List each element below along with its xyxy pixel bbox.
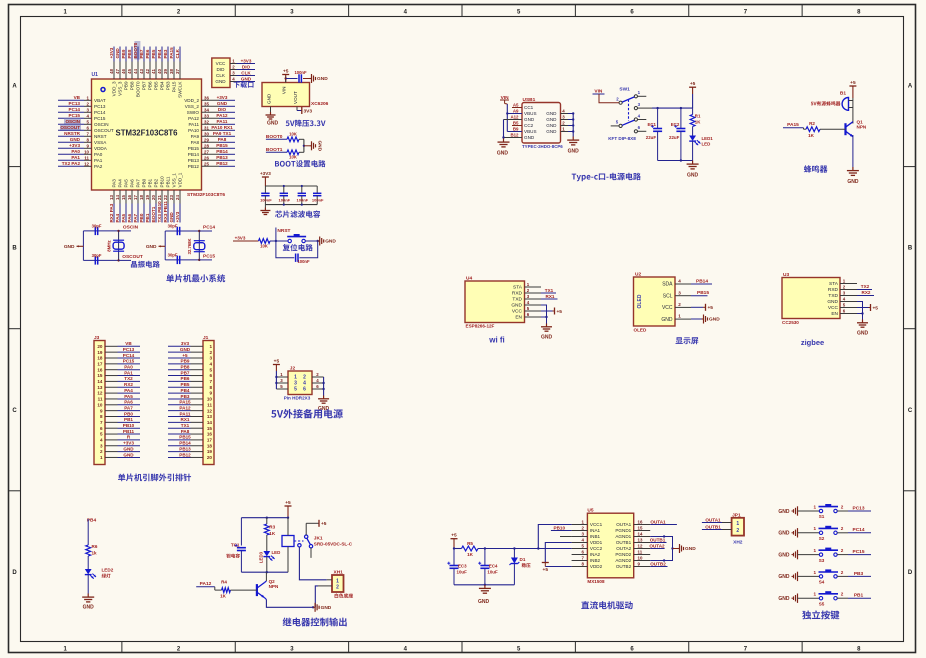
power rail with resistor R5: [451, 533, 572, 557]
svg-text:PA11: PA11: [217, 119, 228, 124]
svg-text:GND: GND: [511, 303, 522, 309]
svg-text:+5: +5: [690, 81, 696, 87]
svg-text:PB15: PB15: [216, 143, 228, 148]
svg-text:2: 2: [841, 592, 844, 597]
svg-text:VB: VB: [125, 341, 132, 346]
svg-text:14: 14: [97, 379, 103, 384]
pin 3 PC14 with net label PC14: [58, 107, 106, 115]
svg-text:12: 12: [97, 391, 103, 396]
wifi ground wiring: [541, 305, 553, 341]
svg-text:1: 1: [814, 548, 817, 553]
svg-text:10: 10: [207, 397, 213, 402]
svg-text:18: 18: [139, 195, 144, 200]
svg-text:+5: +5: [285, 500, 291, 506]
connector XH1 socket: [318, 569, 353, 598]
svg-text:J3: J3: [94, 335, 100, 341]
svg-text:+3V3: +3V3: [123, 441, 134, 446]
power port 3V3 at regulator output: [297, 107, 312, 115]
svg-text:STM32F103C8T6: STM32F103C8T6: [116, 129, 179, 138]
svg-text:GND: GND: [778, 596, 790, 602]
svg-text:S2: S2: [819, 536, 825, 541]
svg-text:13: 13: [97, 385, 103, 390]
svg-text:16: 16: [127, 195, 132, 200]
svg-text:GND: GND: [546, 123, 557, 128]
push button reset switch: [287, 234, 319, 243]
svg-text:D: D: [12, 570, 17, 576]
ground symbol at regulator GND pin: [266, 107, 279, 127]
svg-text:23: 23: [169, 195, 174, 200]
svg-text:JP1: JP1: [732, 512, 741, 518]
svg-text:CLK: CLK: [216, 73, 226, 78]
svg-text:SRD-05VDC-SL-C: SRD-05VDC-SL-C: [314, 541, 353, 546]
svg-text:OUTB1: OUTB1: [616, 540, 632, 545]
svg-text:RX1: RX1: [546, 294, 555, 299]
svg-text:PA7: PA7: [124, 405, 133, 410]
svg-text:15: 15: [121, 195, 126, 200]
title relay control output: [283, 618, 347, 627]
svg-text:GND: GND: [778, 574, 790, 580]
svg-text:1: 1: [100, 455, 103, 460]
ground port OLED: [691, 315, 720, 324]
svg-text:PC13: PC13: [853, 505, 865, 511]
connector J3 pin header 20: [94, 335, 140, 465]
svg-text:PC14: PC14: [94, 110, 106, 115]
ground symbol buzzer: [847, 167, 859, 185]
svg-text:AGND1: AGND1: [615, 534, 631, 539]
pin 33 PA12 with net label PA12: [188, 113, 235, 121]
svg-text:OUTA1: OUTA1: [705, 517, 721, 522]
svg-text:20: 20: [97, 344, 103, 349]
svg-text:A: A: [908, 84, 913, 90]
svg-text:11: 11: [98, 397, 103, 402]
svg-text:PA5: PA5: [121, 213, 126, 222]
svg-text:SWCLK: SWCLK: [178, 81, 183, 98]
title display: [676, 337, 699, 344]
svg-text:GND: GND: [524, 117, 535, 122]
pin 36 VDD_2 with net label +3V3: [184, 95, 235, 103]
wire relay top rail: [241, 517, 289, 546]
title independent buttons: [802, 610, 839, 619]
svg-text:OSCOUT: OSCOUT: [122, 254, 143, 260]
svg-text:OSCIN: OSCIN: [65, 119, 80, 124]
svg-text:2: 2: [841, 548, 844, 553]
power port +3V3 for filter capacitors: [260, 171, 271, 186]
svg-text:+5: +5: [451, 533, 457, 539]
svg-text:U4: U4: [466, 275, 472, 281]
svg-text:PA3: PA3: [112, 179, 117, 188]
svg-text:27: 27: [204, 149, 209, 154]
svg-text:1K: 1K: [808, 133, 815, 138]
motor driver ground rail: [454, 584, 514, 605]
svg-text:3: 3: [678, 290, 681, 295]
svg-text:5: 5: [294, 387, 297, 393]
button S4 with net label PB3: [778, 569, 871, 584]
svg-text:OSCOUT: OSCOUT: [94, 128, 114, 133]
svg-text:9: 9: [100, 408, 103, 413]
svg-text:19: 19: [145, 195, 150, 200]
svg-text:PB9: PB9: [124, 81, 129, 90]
svg-text:3V3: 3V3: [304, 108, 313, 114]
regulator U6 XC6206: [262, 83, 329, 107]
ground symbol of type-c power: [687, 161, 699, 179]
svg-text:2: 2: [100, 449, 103, 454]
svg-text:11: 11: [84, 155, 89, 160]
capacitor 100nF at regulator input: [286, 70, 310, 83]
svg-text:SW1: SW1: [619, 87, 630, 93]
title wifi: [488, 336, 505, 345]
svg-text:PB6: PB6: [145, 49, 150, 58]
svg-text:B: B: [12, 246, 17, 252]
title chip filter capacitors: [275, 210, 320, 217]
svg-text:OUTA1: OUTA1: [616, 522, 631, 527]
svg-text:RX2 PA3: RX2 PA3: [109, 203, 114, 222]
svg-text:10: 10: [97, 402, 103, 407]
resistor R4 1K on PA12: [196, 580, 257, 599]
svg-text:OSCIN: OSCIN: [123, 225, 139, 231]
resistor R6 1k: [86, 544, 98, 569]
svg-text:VBUS: VBUS: [524, 111, 537, 116]
connector J1 pin header 20: [168, 335, 214, 465]
svg-text:LED1: LED1: [702, 136, 714, 141]
svg-text:R2: R2: [809, 121, 815, 126]
svg-text:PC13: PC13: [123, 347, 135, 352]
title reset circuit: [283, 244, 313, 251]
svg-text:GND: GND: [215, 79, 226, 84]
svg-text:VDD2: VDD2: [590, 564, 603, 569]
svg-text:GND: GND: [546, 117, 557, 122]
svg-text:B1: B1: [840, 91, 846, 97]
svg-text:OLED: OLED: [634, 328, 647, 333]
svg-text:8: 8: [209, 385, 212, 390]
ground symbol of filter cap bank: [260, 205, 270, 215]
net label PB14 wire: [691, 279, 712, 285]
svg-text:+3V3: +3V3: [217, 95, 228, 100]
net label RX1 wire: [541, 294, 558, 299]
pin 32 PA11 with net label PA11: [188, 119, 235, 127]
svg-text:GND: GND: [478, 599, 490, 605]
svg-text:13: 13: [207, 414, 213, 419]
svg-text:GND: GND: [568, 149, 580, 155]
svg-text:15: 15: [638, 525, 643, 530]
svg-text:+5: +5: [182, 353, 188, 358]
transistor Q2 NPN: [257, 572, 279, 599]
transistor Q1 NPN: [846, 120, 867, 168]
svg-text:OSCOUT: OSCOUT: [60, 125, 80, 130]
svg-text:CC1: CC1: [524, 105, 534, 110]
svg-text:R5: R5: [467, 541, 473, 546]
power port +5 wifi: [541, 308, 562, 315]
driver U5 MX1508: [572, 508, 651, 585]
title 5V to 3.3V: [286, 120, 326, 127]
svg-text:13: 13: [638, 537, 643, 542]
svg-text:PB5: PB5: [151, 49, 156, 58]
svg-text:+3V3: +3V3: [241, 58, 252, 63]
pin 34 SWIO with net label DIO: [187, 107, 235, 115]
svg-text:RX1: RX1: [181, 417, 190, 422]
svg-text:GND: GND: [325, 239, 336, 245]
svg-text:CLK: CLK: [241, 70, 251, 75]
svg-text:GND: GND: [524, 135, 535, 140]
svg-text:PB6: PB6: [148, 81, 153, 90]
relay JK1 contacts: [298, 523, 313, 558]
svg-text:PB5: PB5: [181, 382, 190, 387]
svg-text:1K: 1K: [220, 594, 227, 599]
title MCU minimal system: [166, 274, 225, 282]
svg-text:KFT DIP-8X8: KFT DIP-8X8: [608, 136, 636, 141]
svg-text:30pF: 30pF: [92, 224, 102, 229]
svg-text:45: 45: [127, 69, 132, 74]
pin 38 PA15 with net label PA15: [169, 47, 176, 93]
net label OUTB1 wire to JP1: [702, 524, 732, 529]
svg-text:32: 32: [204, 119, 209, 124]
button S1 with net label PC13: [778, 504, 871, 519]
svg-text:RX3 PB11: RX3 PB11: [163, 201, 168, 223]
svg-text:19: 19: [97, 350, 103, 355]
wire XH1 pin2 to ground rail: [315, 586, 318, 607]
net label PB15 wire: [691, 290, 709, 296]
title BOOT set circuit: [275, 160, 326, 167]
svg-text:R4: R4: [221, 580, 227, 585]
svg-text:LED2: LED2: [102, 568, 114, 573]
svg-text:PB3: PB3: [166, 81, 171, 90]
module U3 CC2530 zigbee: [782, 272, 857, 325]
svg-text:1k: 1k: [92, 551, 98, 556]
svg-text:16: 16: [638, 519, 643, 524]
svg-text:U5: U5: [587, 508, 593, 514]
svg-text:D1: D1: [520, 557, 526, 562]
svg-text:TC1: TC1: [231, 543, 240, 548]
svg-text:A5: A5: [513, 103, 519, 108]
svg-text:MX1508: MX1508: [587, 579, 605, 584]
svg-text:PB10: PB10: [554, 525, 566, 530]
svg-text:NPN: NPN: [269, 584, 279, 589]
svg-text:LED3: LED3: [258, 551, 263, 563]
svg-text:20: 20: [151, 195, 156, 200]
svg-text:SWIO: SWIO: [187, 110, 200, 115]
svg-text:+3V3: +3V3: [260, 171, 271, 176]
svg-text:PB1: PB1: [145, 213, 150, 222]
bottom rail of type-c power: [658, 159, 693, 161]
svg-text:PB7: PB7: [142, 81, 147, 90]
svg-text:PB7: PB7: [181, 370, 190, 375]
svg-text:PA15: PA15: [787, 122, 799, 128]
pin 24 VDD_1 with net label +3V3: [175, 172, 182, 222]
pin 42 PB6 with net label PB6: [145, 47, 152, 91]
svg-text:EC3: EC3: [458, 564, 467, 569]
svg-text:42: 42: [145, 69, 150, 74]
net label OUTA1 wire to JP1: [702, 517, 732, 522]
wire INB1 stub: [560, 536, 572, 538]
pin 43 PB7 with net label PB7: [139, 47, 146, 91]
svg-text:PB4: PB4: [160, 81, 165, 90]
svg-text:S5: S5: [819, 601, 825, 606]
relay JK1 coil: [282, 518, 353, 573]
svg-text:33: 33: [204, 113, 209, 118]
svg-text:PB9: PB9: [181, 359, 190, 364]
svg-text:PA2: PA2: [94, 164, 103, 169]
pin 7 NRST with net label NRSTR: [58, 131, 107, 139]
pin 45 PB8 with net label PB8: [127, 47, 134, 91]
svg-text:31: 31: [204, 125, 209, 130]
svg-text:+3V3: +3V3: [109, 47, 114, 58]
svg-text:STM32F103C8T6: STM32F103C8T6: [187, 192, 225, 198]
svg-text:PB4: PB4: [157, 49, 162, 58]
svg-text:1: 1: [814, 526, 817, 531]
svg-text:GND: GND: [169, 212, 174, 223]
svg-text:2: 2: [336, 585, 339, 591]
svg-text:VCC: VCC: [512, 309, 523, 315]
svg-text:VSS_3: VSS_3: [118, 81, 123, 96]
svg-text:PC14: PC14: [123, 353, 135, 358]
svg-text:BOOT0: BOOT0: [136, 81, 141, 97]
svg-text:PA7: PA7: [136, 179, 141, 188]
svg-text:+3V3: +3V3: [175, 211, 180, 222]
capacitor bank C 100nF x4: [260, 185, 324, 206]
net label PB4 wire: [87, 518, 97, 546]
svg-text:PB8: PB8: [127, 49, 132, 58]
svg-text:PA4: PA4: [124, 388, 133, 393]
svg-text:U3: U3: [783, 272, 789, 278]
power port +5 for regulator: [282, 69, 289, 83]
LED LED3: [258, 550, 280, 572]
svg-text:8: 8: [100, 414, 103, 419]
svg-text:GND: GND: [546, 111, 557, 116]
svg-text:GND: GND: [83, 605, 95, 611]
svg-text:NRST: NRST: [277, 228, 290, 234]
capacitor EC3 10uF: [447, 549, 467, 585]
ground port for crystal circuit 1: [64, 244, 84, 250]
pin 48 VDD_3 with net label +3V3: [109, 47, 116, 97]
svg-text:U1: U1: [92, 72, 99, 78]
svg-text:PA8: PA8: [181, 429, 190, 434]
svg-text:PB0: PB0: [139, 213, 144, 222]
svg-text:PC15: PC15: [69, 113, 81, 118]
svg-text:GND: GND: [217, 101, 228, 106]
svg-text:12: 12: [84, 161, 89, 166]
wire SW1 pin3 to power rail: [652, 107, 693, 109]
svg-text:D: D: [908, 570, 913, 576]
svg-text:PC14: PC14: [69, 107, 81, 112]
svg-text:PC13: PC13: [94, 104, 106, 109]
title 5V external backup power: [271, 409, 343, 418]
svg-text:zigbee: zigbee: [801, 338, 824, 347]
svg-text:40: 40: [157, 69, 162, 74]
pin 13 PA3 with net label RX2 PA3: [109, 179, 116, 223]
power port +5 buzzer: [849, 80, 856, 98]
svg-text:1: 1: [814, 570, 817, 575]
svg-text:PB6: PB6: [181, 376, 190, 381]
svg-text:PA1: PA1: [71, 155, 80, 160]
svg-text:+5: +5: [708, 305, 714, 311]
pin 44 BOOT0 with net label BOOT0: [133, 41, 140, 97]
svg-text:21: 21: [157, 195, 162, 200]
svg-text:2: 2: [841, 526, 844, 531]
svg-text:PC14: PC14: [203, 225, 215, 231]
svg-text:100nF: 100nF: [297, 197, 309, 202]
pin 21 PB10 with net label TX3 PB10: [157, 176, 164, 223]
svg-text:1: 1: [736, 521, 739, 527]
svg-text:PB0: PB0: [142, 178, 147, 187]
svg-text:4: 4: [100, 438, 103, 443]
svg-text:VSS_1: VSS_1: [172, 173, 177, 188]
ground bus of USB1 left side: [497, 120, 522, 157]
svg-text:NRSTR: NRSTR: [64, 131, 81, 136]
net label OUTB2 wire: [650, 561, 667, 566]
svg-text:+5: +5: [283, 69, 289, 75]
crystal circuit Y1 8MHz with load capacitors: [83, 224, 142, 265]
resistor 10K reset pull-up: [259, 239, 288, 249]
op-amp U1 STM32F103C8T6 MCU body: [92, 72, 226, 198]
svg-text:17: 17: [207, 438, 213, 443]
svg-text:100nF: 100nF: [297, 259, 310, 264]
svg-text:10K: 10K: [260, 244, 268, 249]
svg-text:PB11: PB11: [166, 176, 171, 187]
svg-text:14: 14: [115, 195, 120, 200]
svg-text:30: 30: [204, 131, 209, 136]
svg-text:3: 3: [100, 443, 103, 448]
svg-text:GND: GND: [778, 552, 790, 558]
wire AGND1 AGND2 tie: [650, 535, 677, 561]
svg-text:44: 44: [133, 69, 138, 74]
svg-text:2: 2: [209, 350, 212, 355]
svg-text:25: 25: [204, 161, 209, 166]
svg-text:GND: GND: [123, 446, 134, 451]
svg-text:PA12: PA12: [216, 113, 228, 118]
svg-text:PB15: PB15: [179, 435, 191, 440]
svg-text:+3V3: +3V3: [69, 143, 80, 148]
title MCU pins breakout header: [118, 474, 191, 482]
svg-text:TX1: TX1: [181, 423, 190, 428]
svg-text:PB3: PB3: [181, 394, 190, 399]
svg-text:GND: GND: [180, 347, 191, 352]
svg-text:OUTA2: OUTA2: [616, 546, 631, 551]
svg-text:GND: GND: [267, 93, 272, 104]
svg-text:VDDA: VDDA: [94, 146, 108, 151]
svg-text:INB1: INB1: [590, 534, 601, 539]
svg-text:CLK: CLK: [175, 48, 180, 58]
svg-text:PGND1: PGND1: [615, 528, 631, 533]
svg-text:PA15: PA15: [179, 400, 191, 405]
pin 40 PB4 with net label PB4: [157, 47, 164, 91]
svg-text:PB3: PB3: [163, 49, 168, 58]
svg-text:VDD1: VDD1: [590, 540, 603, 545]
svg-text:+5: +5: [321, 521, 327, 527]
svg-text:EC4: EC4: [489, 564, 498, 569]
svg-text:CC2530: CC2530: [782, 320, 799, 325]
svg-text:PC13: PC13: [69, 101, 81, 106]
crystal circuit Y2 32.768K with load capacitors: [165, 224, 215, 264]
net label TX2 wire: [857, 284, 872, 289]
svg-text:B5: B5: [513, 121, 519, 126]
power port +5 relay contact: [306, 520, 327, 527]
svg-text:PB15: PB15: [697, 290, 709, 296]
pin 31 PA10 with net label PA10 RX1: [188, 125, 235, 133]
pin 39 PB3 with net label PB3: [163, 47, 170, 91]
connector J2 Pin HDR2X3: [276, 365, 323, 400]
svg-text:PB14: PB14: [188, 152, 200, 157]
svg-text:LED: LED: [272, 550, 281, 555]
svg-text:wi fi: wi fi: [488, 336, 505, 345]
pin 46 PB9 with net label PB9: [121, 47, 128, 91]
svg-text:PC15: PC15: [94, 116, 106, 121]
svg-text:30pF: 30pF: [168, 224, 178, 229]
svg-text:TX2: TX2: [861, 284, 870, 289]
svg-text:RXD: RXD: [828, 287, 839, 293]
svg-text:TX2 PA2: TX2 PA2: [62, 161, 81, 166]
pin 9 VDDA with net label +3V3: [58, 143, 108, 151]
svg-text:1K: 1K: [695, 120, 701, 125]
buzzer B1: [811, 91, 853, 123]
